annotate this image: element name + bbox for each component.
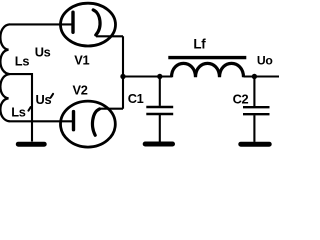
tube V2 envelope [61,101,116,147]
wire: Ls top to V1 plate [9,23,72,25]
wire: V1 cathode lead [96,35,123,37]
ground C1 [145,142,172,147]
node junction dot at C1 [157,74,162,79]
tube V2 cathode arc [92,109,99,135]
capacitor C2 plates [243,107,270,114]
capacitor C1 lead bottom [159,115,161,142]
prime tick of Ls' [28,107,30,111]
inductor Lf core bar [168,56,246,59]
capacitor C2 lead bottom [253,115,255,142]
tube V1 anode bar [71,12,74,32]
capacitor C1 plates [146,107,173,114]
svg-text:Ls: Ls [11,105,26,120]
svg-text:V2: V2 [73,83,88,98]
wire: center tap [9,74,32,141]
prime tick of Us' [51,94,53,98]
svg-text:C2: C2 [233,92,249,107]
inductor Ls [0,24,9,74]
svg-text:Lf: Lf [193,36,206,51]
wire: V2 cathode lead [99,108,123,110]
svg-text:Uo: Uo [257,53,273,67]
wire: Ls' bottom to V2 plate [9,120,74,122]
ground center tap [18,142,44,147]
tube V2 anode bar [72,112,75,130]
svg-text:Ls: Ls [15,53,30,68]
wire: cathode bus vertical [122,36,124,109]
svg-text:Us: Us [35,45,51,60]
svg-text:V1: V1 [74,53,89,68]
inductor Ls' [0,74,9,121]
wire: rail right segment [244,75,280,77]
node junction dot at C2 [252,74,257,79]
svg-text:Us: Us [36,92,52,107]
capacitor C1 lead top [159,77,161,106]
svg-text:C1: C1 [128,91,144,106]
wire: rail left segment [123,75,172,77]
inductor Lf [172,63,244,77]
capacitor C2 lead top [253,77,255,107]
node junction dot at cathode bus [120,74,125,79]
ground C2 [241,142,269,147]
tube V1 cathode arc [93,10,100,35]
tube V1 envelope [61,3,116,46]
